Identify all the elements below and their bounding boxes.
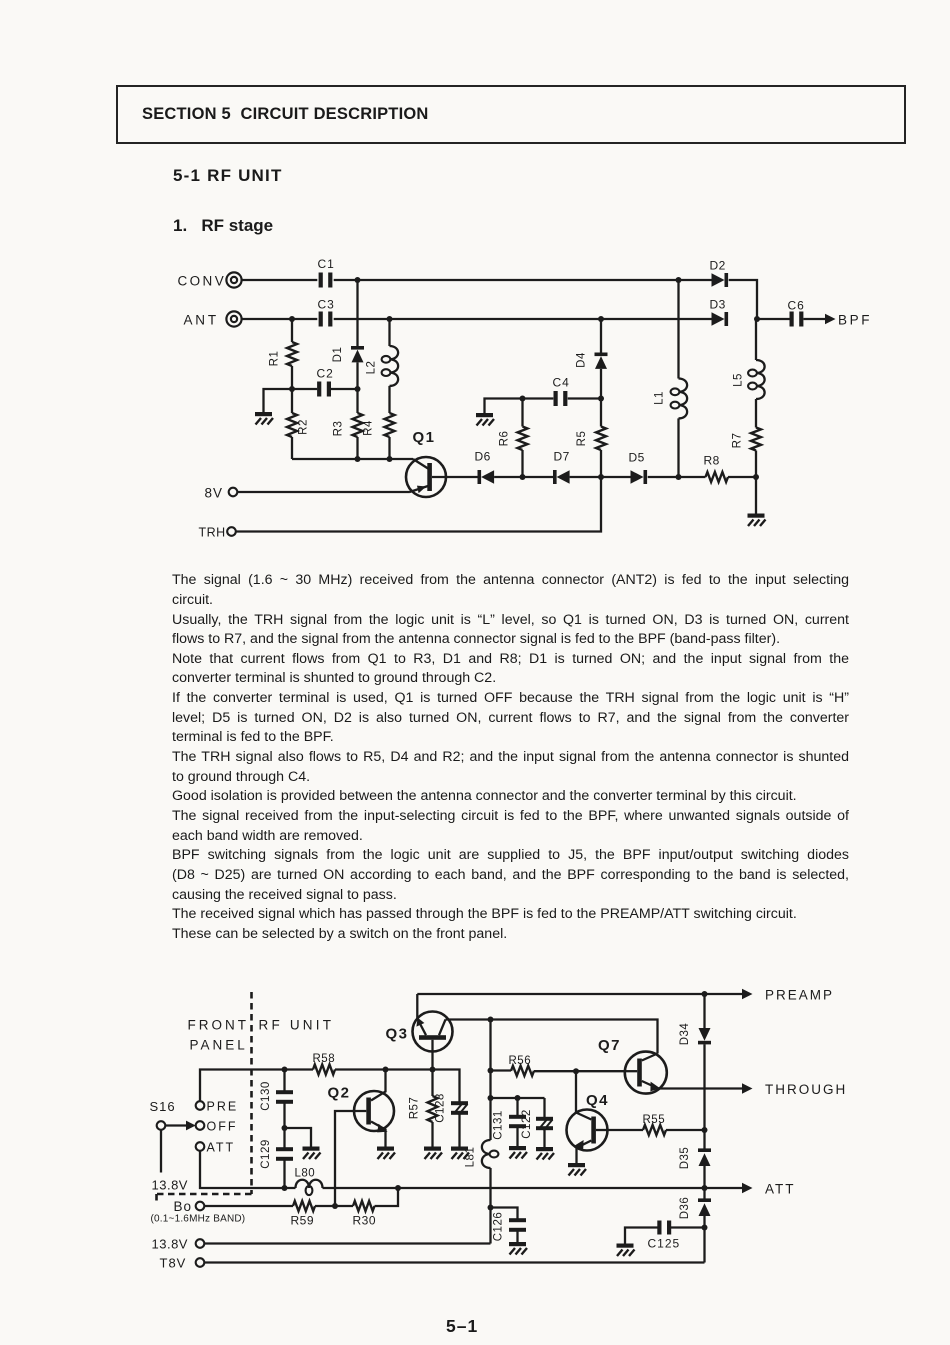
ground at C4 node bbox=[476, 413, 494, 426]
heading 5-1 RF UNIT bbox=[173, 166, 283, 186]
node ANT-R1 junction bbox=[289, 316, 295, 322]
svg-text:L2: L2 bbox=[366, 361, 378, 375]
node R6 bottom junction bbox=[520, 474, 526, 480]
resistor R2 bbox=[287, 389, 310, 459]
resistor R57 bbox=[409, 1070, 438, 1147]
wire C130 node to ground bbox=[285, 1128, 312, 1147]
wire base node line bbox=[292, 458, 413, 460]
text FRONT PANEL bbox=[188, 1018, 250, 1053]
wire C131 branch bbox=[491, 1097, 545, 1099]
resistor R30 bbox=[353, 1188, 399, 1228]
wire ATT line bbox=[200, 1151, 743, 1188]
resistor R5 bbox=[576, 399, 606, 478]
capacitor C4 bbox=[523, 376, 602, 407]
ground at C129 node bbox=[303, 1147, 321, 1160]
svg-text:ANT: ANT bbox=[184, 313, 219, 328]
node R55-D35 junction bbox=[702, 1127, 708, 1133]
wire D36 to T8V line bbox=[703, 1228, 705, 1263]
wire L81 column lower bbox=[489, 1168, 491, 1244]
node D3-C6 junction bbox=[754, 316, 760, 322]
diode D35 bbox=[679, 1130, 711, 1188]
wire TRH line bbox=[236, 477, 601, 532]
svg-text:C1: C1 bbox=[318, 257, 335, 271]
terminal 13.8V bbox=[152, 1237, 205, 1252]
wire D3 junction to C6 bbox=[757, 318, 790, 320]
section header box bbox=[116, 85, 906, 144]
wire Q3 collector line bbox=[446, 1020, 658, 1054]
svg-text:D1: D1 bbox=[332, 347, 344, 363]
node CONV-L1 junction bbox=[676, 277, 682, 283]
svg-text:Q1: Q1 bbox=[413, 429, 436, 446]
capacitor C6 bbox=[788, 299, 805, 327]
svg-text:THROUGH: THROUGH bbox=[765, 1082, 847, 1097]
terminal T8V bbox=[160, 1256, 205, 1271]
node R1-C2 junction bbox=[289, 386, 295, 392]
diode D34 bbox=[679, 994, 711, 1130]
ground at C125 bbox=[617, 1244, 635, 1257]
diode D3 bbox=[710, 298, 729, 327]
text RF UNIT bbox=[259, 1018, 335, 1033]
wire C6 to BPF arrow bbox=[804, 318, 827, 320]
wire D7 to D5 bbox=[570, 476, 631, 478]
wire D2 to ANT line bbox=[729, 280, 757, 319]
terminal Bo bbox=[174, 1199, 205, 1214]
svg-text:R7: R7 bbox=[732, 433, 744, 449]
capacitor C3 bbox=[318, 298, 335, 327]
capacitor C129 bbox=[260, 1139, 293, 1188]
resistor R3 bbox=[333, 389, 363, 459]
svg-text:ATT: ATT bbox=[765, 1182, 796, 1197]
node Q2 base junction bbox=[332, 1203, 338, 1209]
wire R7 junction to ground bbox=[755, 477, 757, 514]
svg-text:L5: L5 bbox=[733, 373, 745, 387]
svg-text:R5: R5 bbox=[576, 431, 588, 447]
svg-text:C122: C122 bbox=[521, 1109, 533, 1139]
node R56 left junction bbox=[488, 1068, 494, 1074]
node R5-TRH junction bbox=[598, 474, 604, 480]
svg-text:D34: D34 bbox=[679, 1023, 691, 1046]
boundary FRONT PANEL / RF UNIT dashed line bbox=[157, 992, 252, 1201]
capacitor C126 bbox=[491, 1208, 527, 1243]
diode D5 bbox=[629, 451, 648, 485]
node C130 top junction bbox=[282, 1067, 288, 1073]
svg-text:PREAMP: PREAMP bbox=[765, 988, 834, 1003]
capacitor C2 bbox=[292, 367, 358, 397]
diode D2 bbox=[710, 259, 729, 288]
text 13.8V supply to S16 bbox=[152, 1178, 188, 1193]
svg-text:R2: R2 bbox=[298, 419, 310, 435]
node Q3 base junction bbox=[430, 1067, 436, 1073]
svg-text:RF UNIT: RF UNIT bbox=[259, 1018, 335, 1033]
ground at Q4 emitter bbox=[568, 1163, 586, 1176]
connector ANT bbox=[184, 311, 242, 327]
svg-text:D7: D7 bbox=[554, 450, 570, 464]
svg-text:C2: C2 bbox=[317, 367, 334, 381]
transistor Q7 bbox=[598, 1037, 667, 1094]
ground at R57 bbox=[424, 1147, 442, 1160]
wire PRE riser bbox=[200, 1070, 313, 1102]
svg-text:R30: R30 bbox=[353, 1214, 377, 1228]
page number bbox=[446, 1316, 478, 1337]
resistor R55 bbox=[608, 1114, 705, 1135]
svg-text:Q4: Q4 bbox=[586, 1092, 609, 1109]
switch contact ATT bbox=[196, 1141, 235, 1155]
svg-text:Q2: Q2 bbox=[328, 1085, 351, 1102]
svg-text:C4: C4 bbox=[553, 376, 570, 390]
svg-text:PRE: PRE bbox=[207, 1100, 239, 1114]
svg-text:PANEL: PANEL bbox=[190, 1038, 248, 1053]
ground at C128 bbox=[451, 1147, 469, 1160]
diode D7 bbox=[553, 450, 570, 485]
node C2-D1 junction bbox=[355, 386, 361, 392]
svg-text:OFF: OFF bbox=[207, 1120, 238, 1134]
svg-text:D35: D35 bbox=[679, 1147, 691, 1170]
svg-text:D6: D6 bbox=[475, 450, 491, 464]
resistor R8 bbox=[704, 454, 729, 483]
svg-text:ATT: ATT bbox=[207, 1141, 236, 1155]
svg-text:CONV: CONV bbox=[178, 274, 227, 289]
transistor Q1 bbox=[406, 429, 478, 497]
node D35-D36 junction bbox=[702, 1185, 708, 1191]
svg-text:R57: R57 bbox=[409, 1097, 421, 1120]
node C130-C129 junction bbox=[282, 1125, 288, 1131]
ground at Q2 emitter bbox=[377, 1147, 395, 1160]
capacitor C130 bbox=[260, 1070, 293, 1150]
terminal TRH bbox=[199, 526, 236, 540]
diode D1 bbox=[332, 280, 364, 389]
wire R58 to C128 bbox=[335, 1070, 460, 1104]
svg-text:R55: R55 bbox=[643, 1114, 666, 1126]
wire R8 to R7 bbox=[728, 476, 756, 478]
svg-text:D2: D2 bbox=[710, 259, 726, 273]
node C129 bottom junction bbox=[282, 1185, 288, 1191]
svg-text:R1: R1 bbox=[269, 351, 281, 367]
svg-text:C125: C125 bbox=[648, 1237, 681, 1251]
node R4 bottom junction bbox=[387, 456, 393, 462]
inductor L80 bbox=[295, 1168, 323, 1196]
svg-text:C3: C3 bbox=[318, 298, 335, 312]
resistor R1 bbox=[269, 319, 298, 389]
resistor R6 bbox=[499, 399, 528, 478]
switch contact OFF bbox=[196, 1120, 238, 1134]
inductor L81 bbox=[465, 1140, 499, 1168]
wire C2 node to ground bbox=[264, 389, 293, 412]
svg-text:(0.1~1.6MHz BAND): (0.1~1.6MHz BAND) bbox=[151, 1214, 246, 1225]
capacitor C122 bbox=[521, 1098, 553, 1147]
wire L81 column upper bbox=[489, 1020, 491, 1141]
diode D6 bbox=[475, 450, 495, 485]
transistor Q4 bbox=[567, 1071, 610, 1163]
node CONV-D1 junction bbox=[355, 277, 361, 283]
svg-text:C128: C128 bbox=[435, 1093, 447, 1123]
node ANT-L2 junction bbox=[387, 316, 393, 322]
ground at C126 bbox=[509, 1242, 527, 1255]
transistor Q2 bbox=[328, 1070, 395, 1207]
svg-text:C6: C6 bbox=[788, 299, 805, 313]
wire CONV line bbox=[242, 279, 712, 281]
svg-text:Q3: Q3 bbox=[386, 1026, 409, 1043]
wire Q3 emitter top line bbox=[417, 993, 743, 995]
ground at C131 bbox=[509, 1146, 527, 1159]
resistor R56 bbox=[491, 1055, 625, 1076]
wire 13.8V line bbox=[204, 1242, 490, 1244]
capacitor C125 bbox=[625, 1221, 705, 1251]
svg-text:Q7: Q7 bbox=[598, 1037, 621, 1054]
svg-text:13.8V: 13.8V bbox=[152, 1178, 188, 1193]
svg-text:L80: L80 bbox=[295, 1168, 316, 1180]
svg-text:D36: D36 bbox=[679, 1197, 691, 1220]
wire C4 node to ground bbox=[485, 399, 523, 414]
svg-text:T8V: T8V bbox=[160, 1256, 187, 1271]
node Q4 collector junction bbox=[573, 1068, 579, 1074]
svg-text:R3: R3 bbox=[333, 421, 345, 437]
terminal 8V bbox=[205, 486, 238, 501]
switch S16 common bbox=[150, 1099, 196, 1173]
wire D5 to R8 bbox=[648, 476, 706, 478]
svg-text:BPF: BPF bbox=[838, 313, 872, 328]
resistor R4 bbox=[363, 386, 395, 459]
svg-text:FRONT: FRONT bbox=[188, 1018, 250, 1033]
node C131 branch junction bbox=[488, 1095, 494, 1101]
node C131 top junction bbox=[515, 1095, 521, 1101]
svg-text:D4: D4 bbox=[576, 352, 588, 368]
svg-text:D5: D5 bbox=[629, 451, 645, 465]
svg-text:L1: L1 bbox=[654, 391, 666, 405]
svg-text:R8: R8 bbox=[704, 454, 720, 468]
svg-text:D3: D3 bbox=[710, 298, 726, 312]
body paragraph text bbox=[172, 571, 849, 944]
node D34 top junction bbox=[702, 991, 708, 997]
svg-text:8V: 8V bbox=[205, 486, 224, 501]
diode D36 bbox=[679, 1188, 711, 1228]
svg-text:S16: S16 bbox=[150, 1099, 176, 1114]
svg-text:C131: C131 bbox=[493, 1110, 505, 1140]
wire ANT line bbox=[242, 318, 712, 320]
switch contact PRE bbox=[196, 1100, 239, 1114]
node L1 bottom junction bbox=[676, 474, 682, 480]
text band note bbox=[151, 1214, 246, 1225]
node R30 riser junction bbox=[395, 1185, 401, 1191]
resistor R59 bbox=[204, 1201, 353, 1228]
node L81 top junction bbox=[488, 1017, 494, 1023]
node D4-R5 junction bbox=[598, 396, 604, 402]
svg-text:R56: R56 bbox=[509, 1055, 532, 1067]
inductor L2 bbox=[366, 319, 399, 386]
connector CONV bbox=[178, 272, 242, 288]
node R6 top junction bbox=[520, 396, 526, 402]
ground at R7 bbox=[748, 514, 766, 527]
node C126 branch junction bbox=[488, 1205, 494, 1211]
diode D4 bbox=[576, 319, 608, 399]
wire 8V line bbox=[237, 491, 409, 493]
svg-text:R59: R59 bbox=[291, 1214, 315, 1228]
resistor R58 bbox=[313, 1053, 336, 1075]
node ATT output arrow bbox=[742, 1182, 796, 1197]
inductor L5 bbox=[733, 319, 765, 428]
svg-text:TRH: TRH bbox=[199, 526, 226, 540]
wire THROUGH line bbox=[658, 1087, 743, 1089]
svg-text:R6: R6 bbox=[499, 431, 511, 447]
capacitor C131 bbox=[493, 1098, 527, 1146]
transistor Q3 bbox=[386, 994, 453, 1070]
svg-text:C130: C130 bbox=[260, 1081, 272, 1111]
node PREAMP output arrow bbox=[742, 988, 834, 1003]
svg-text:13.8V: 13.8V bbox=[152, 1237, 188, 1252]
node THROUGH output arrow bbox=[742, 1082, 847, 1097]
resistor R7 bbox=[732, 428, 762, 478]
node BPF output arrow bbox=[825, 313, 872, 328]
svg-text:L81: L81 bbox=[465, 1147, 477, 1168]
svg-text:C126: C126 bbox=[493, 1212, 505, 1242]
wire D6 to D7 bbox=[494, 476, 553, 478]
node Q2 collector junction bbox=[383, 1067, 389, 1073]
ground at C122 bbox=[536, 1147, 554, 1160]
wire T8V line bbox=[204, 1261, 704, 1263]
svg-text:C129: C129 bbox=[260, 1139, 272, 1169]
inductor L1 bbox=[654, 280, 688, 477]
node R3 bottom junction bbox=[355, 456, 361, 462]
capacitor C1 bbox=[318, 257, 335, 288]
node ANT-D4 junction bbox=[598, 316, 604, 322]
ground at C2 node bbox=[255, 412, 273, 425]
heading 1. RF stage bbox=[173, 216, 273, 236]
svg-text:R58: R58 bbox=[313, 1053, 336, 1065]
node C125 junction bbox=[702, 1225, 708, 1231]
svg-text:Bo: Bo bbox=[174, 1199, 193, 1214]
svg-text:R4: R4 bbox=[363, 420, 375, 436]
node R7 bottom junction bbox=[753, 474, 759, 480]
capacitor C128 bbox=[435, 1093, 469, 1146]
